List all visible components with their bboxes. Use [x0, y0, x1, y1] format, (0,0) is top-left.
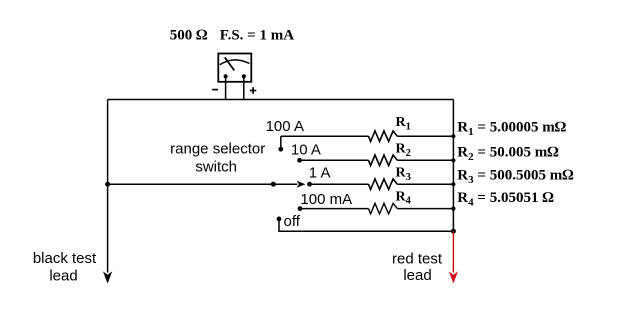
svg-text:1 A: 1 A: [309, 164, 331, 181]
svg-text:10 A: 10 A: [291, 142, 321, 159]
switch contact 100 mA: [298, 206, 303, 211]
node: left rail junction: [105, 182, 110, 187]
wire: branch 2 right segment: [397, 159, 453, 161]
wire: off branch to bottom junction: [279, 219, 453, 231]
wire: right rail: [452, 100, 454, 232]
resistor R1: [369, 131, 398, 142]
meter movement M1 (box, scale arc, needle): [218, 54, 251, 82]
red test lead arrowhead: [449, 271, 458, 283]
svg-text:R1 = 5.00005 mΩ: R1 = 5.00005 mΩ: [457, 119, 566, 138]
svg-text:lead: lead: [403, 267, 431, 284]
wire: branch 3 left segment: [310, 183, 369, 185]
wire: left rail down to black lead: [107, 100, 109, 273]
black test lead arrowhead: [103, 271, 112, 283]
wire: branch 4 left segment: [300, 208, 369, 210]
red test lead wire: [452, 231, 454, 272]
svg-text:off: off: [284, 213, 301, 230]
switch contact 10 A: [297, 158, 302, 163]
wire: riser from 100 A contact: [280, 136, 282, 149]
wire: meter negative lead down: [225, 76, 227, 99]
wire: meter positive lead down: [243, 76, 245, 99]
wire: branch 1 left segment: [281, 135, 369, 137]
resistor R3: [369, 179, 398, 190]
svg-text:100 A: 100 A: [266, 118, 304, 135]
node: junction on pole wire: [271, 182, 276, 187]
svg-text:100 mA: 100 mA: [300, 191, 352, 208]
svg-text:switch: switch: [195, 159, 237, 176]
title: meter rating 500 ohm F.S. = 1 mA: [170, 27, 294, 43]
node: branch 4 to right rail: [451, 207, 455, 211]
switch contact off: [277, 217, 282, 222]
meter terminal - (dot): [224, 74, 228, 78]
wire: top rail: [108, 99, 454, 101]
wire: branch 4 right segment: [397, 208, 453, 210]
wire: switch pole wire: [108, 183, 298, 185]
switch contact 1 A: [307, 182, 312, 187]
label - polarity: [212, 89, 218, 91]
label + polarity: [250, 87, 256, 94]
switch contact 100 A: [278, 147, 283, 152]
node: branch 2 to right rail: [451, 158, 455, 162]
svg-text:F.S. = 1 mA: F.S. = 1 mA: [220, 27, 294, 43]
wire: branch 3 right segment: [397, 183, 453, 185]
svg-text:range selector: range selector: [170, 140, 265, 157]
node: red lead junction: [451, 229, 456, 234]
svg-text:500 Ω: 500 Ω: [170, 27, 208, 43]
meter terminal + (dot): [242, 74, 246, 78]
switch wiper arrow: [297, 181, 306, 188]
svg-text:red test: red test: [392, 251, 443, 268]
node: branch 1 to right rail: [451, 134, 455, 138]
wire: branch 1 right segment: [397, 135, 453, 137]
resistor R2: [369, 155, 398, 166]
svg-text:lead: lead: [49, 267, 77, 284]
svg-text:R3 = 500.5005 mΩ: R3 = 500.5005 mΩ: [457, 168, 574, 187]
node: branch 3 to right rail: [451, 182, 455, 186]
resistor R4: [369, 203, 398, 214]
wire: branch 2 left segment: [300, 159, 369, 161]
svg-text:black test: black test: [33, 250, 97, 267]
